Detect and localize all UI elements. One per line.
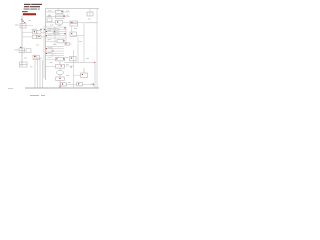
node H1 red <box>46 31 47 32</box>
label I text <box>48 47 52 52</box>
wire right rail <box>96 9 98 89</box>
wire left rail <box>21 16 23 67</box>
pump J2 <box>56 68 63 75</box>
valve K6 <box>77 83 83 86</box>
label A1 <box>15 24 19 27</box>
wire H3 links <box>46 40 58 42</box>
cylinder J1 <box>56 61 65 68</box>
wire L links <box>67 83 96 85</box>
wire K mid horizontals <box>64 36 84 66</box>
label sprinkles <box>24 10 91 82</box>
wire A1 link <box>26 25 33 27</box>
valve C1 <box>19 48 31 53</box>
arrow L2 <box>91 84 94 86</box>
valve K5 <box>81 68 88 77</box>
node B2 red <box>38 36 39 37</box>
node B1 red <box>34 31 35 32</box>
node H7 red <box>66 43 67 44</box>
valve J3 <box>56 75 64 81</box>
label C1 <box>15 48 18 51</box>
valve K2 <box>70 32 77 36</box>
wire bottom return bus <box>25 87 99 89</box>
node K1 red <box>71 22 72 23</box>
valve block B1 <box>33 31 42 39</box>
valve G1 <box>56 9 64 14</box>
node I2 red <box>46 53 47 54</box>
node H5 red <box>64 33 65 34</box>
valve K3 top right <box>85 12 97 23</box>
valve K4 <box>70 57 77 61</box>
valve G3 <box>56 21 63 25</box>
node M red specks <box>52 50 95 84</box>
valve L1 bottom <box>61 83 67 86</box>
node rail red <box>44 29 45 30</box>
node K6 red <box>78 83 79 84</box>
subtitle red text <box>22 11 28 12</box>
wire center rail 2 <box>43 26 45 78</box>
title text <box>24 4 42 10</box>
node I1 red <box>46 48 47 49</box>
wire top supply bus <box>46 8 100 10</box>
node I3 red <box>56 58 57 59</box>
node G3 red <box>57 22 58 23</box>
valve H7 <box>65 43 70 46</box>
wire drop bundle <box>35 58 43 88</box>
wire J drop <box>59 81 61 88</box>
wire K verticals <box>72 9 90 89</box>
wire K horizontal mid <box>64 63 95 89</box>
wire ladder rungs H <box>46 27 67 44</box>
label F0 <box>47 15 51 18</box>
valve F0 <box>47 18 52 22</box>
wire ladder rungs I <box>46 47 65 67</box>
valve I3 <box>56 58 65 61</box>
wire G links <box>46 12 85 22</box>
wire B links <box>22 32 46 37</box>
wire center rail <box>45 9 47 81</box>
node J1 red <box>61 65 62 66</box>
node C1 red <box>20 47 21 48</box>
node J3 red <box>59 78 60 79</box>
label B1 <box>32 28 37 31</box>
motor E1 <box>20 62 28 67</box>
node H4 red <box>64 27 65 28</box>
node L1 red <box>62 84 63 85</box>
legend red bar <box>23 13 36 15</box>
pump D1 <box>33 55 39 59</box>
node H3 red <box>63 40 64 41</box>
wire left stub <box>8 88 13 90</box>
node D1 red <box>34 56 35 57</box>
node A2 red <box>21 19 22 20</box>
node K4 red <box>71 58 72 59</box>
node H2 red <box>46 35 47 36</box>
label H text <box>48 28 53 35</box>
node A1 red <box>22 21 23 22</box>
valve A1 <box>20 24 26 29</box>
node K5 red <box>82 74 83 75</box>
wire K5 link <box>74 74 81 76</box>
node G1 red <box>61 11 62 12</box>
valve K1 <box>70 21 78 26</box>
node H6 red <box>54 31 55 32</box>
valve H3 <box>57 40 64 43</box>
node G2 red <box>64 16 65 17</box>
valve G2 <box>56 15 65 18</box>
caption text <box>30 95 45 96</box>
node K2 red <box>71 33 72 34</box>
